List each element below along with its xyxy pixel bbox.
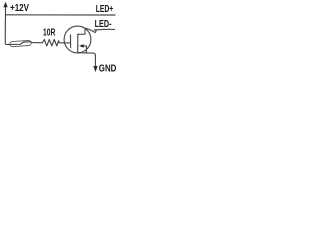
GND label xyxy=(99,63,117,74)
MOSFET Q1 body circle xyxy=(64,26,91,53)
MOSFET drain stub xyxy=(78,28,85,34)
fuse F1 inner element xyxy=(10,42,32,45)
wire: resistor to MOSFET gate xyxy=(59,42,70,44)
GND arrowhead xyxy=(93,66,97,72)
wire: +12V top rail to LED+ xyxy=(6,14,116,16)
MOSFET channel bar xyxy=(77,34,79,52)
svg-text:+12V: +12V xyxy=(10,2,30,13)
+12V label xyxy=(10,2,30,13)
fuse F1 body xyxy=(10,40,31,46)
LED- rail xyxy=(94,28,114,31)
+12V supply arrow shaft xyxy=(5,5,7,15)
MOSFET body arrow line xyxy=(83,46,86,53)
svg-text:10R: 10R xyxy=(43,26,56,38)
MOSFET gate bar xyxy=(70,35,72,48)
LED- label xyxy=(95,18,112,30)
resistor 10R zigzag xyxy=(42,40,59,46)
svg-text:LED-: LED- xyxy=(95,18,112,30)
wire: left branch down from +12V to fuse xyxy=(5,15,10,45)
MOSFET source path to GND wire xyxy=(78,53,96,67)
svg-text:LED+: LED+ xyxy=(96,3,114,15)
MOSFET body arrowhead xyxy=(79,44,84,48)
LED+ label xyxy=(96,3,114,15)
svg-text:GND: GND xyxy=(99,63,117,74)
+12V supply arrowhead xyxy=(3,2,7,7)
wire: fuse to resistor xyxy=(32,42,43,44)
10R label xyxy=(43,26,56,38)
wire: drain to LED- rail xyxy=(85,28,96,32)
